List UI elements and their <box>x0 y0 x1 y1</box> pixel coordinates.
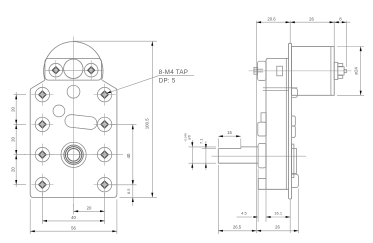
motor terminal bottom <box>338 75 343 78</box>
svg-text:20.6: 20.6 <box>267 16 276 21</box>
small circle below bearing <box>67 85 80 98</box>
bottom dimension 26.5 <box>218 165 256 234</box>
mounting hole row3 left <box>31 144 53 166</box>
svg-text:20: 20 <box>11 107 16 112</box>
right dimension phi24 <box>337 47 364 96</box>
svg-text:26: 26 <box>309 16 314 21</box>
gearbox top band <box>45 58 102 80</box>
svg-text:8.5: 8.5 <box>126 189 131 194</box>
output shaft side <box>218 147 258 163</box>
output shaft concentric circles <box>61 142 86 167</box>
M4 tap hole top-right <box>84 60 98 80</box>
svg-text:16.1: 16.1 <box>274 211 283 216</box>
motor shaft tip <box>344 69 346 72</box>
housing mid step small <box>261 113 266 122</box>
mounting hole row2 left <box>31 113 53 135</box>
bottom dimension 26 <box>257 189 299 234</box>
bottom dimension 16.1 <box>266 190 290 233</box>
side view shaft centerline <box>212 155 307 157</box>
bottom dimension 4.5 <box>237 169 259 223</box>
shaft boss back plate <box>292 144 297 178</box>
screw boss on plate <box>277 66 283 76</box>
svg-text:ø6: ø6 <box>186 134 191 139</box>
M4 tap hole top-left <box>49 60 63 80</box>
bottom dimension 20 <box>73 193 104 224</box>
motor rear bearing <box>338 67 344 75</box>
housing mid boss <box>258 122 266 136</box>
housing top ear <box>258 61 266 80</box>
motor terminal top <box>338 64 343 67</box>
svg-text:8: 8 <box>339 16 342 21</box>
front view top holes centerline <box>46 69 103 71</box>
mounting hole row1 right <box>94 84 116 106</box>
svg-text:100.5: 100.5 <box>145 118 150 130</box>
mounting hole row4 left <box>31 174 53 196</box>
svg-text:DP: 5: DP: 5 <box>159 78 176 85</box>
plate mid tab 2 <box>292 126 296 137</box>
svg-text:8-M4 TAP: 8-M4 TAP <box>159 69 188 76</box>
plate bottom tab <box>292 174 299 188</box>
svg-text:20: 20 <box>87 205 92 210</box>
right dimension 8.5 <box>126 177 134 206</box>
mounting hole row4 right <box>94 174 116 196</box>
housing back line <box>285 58 287 189</box>
mounting hole row2 right <box>94 113 116 135</box>
svg-text:4.5: 4.5 <box>241 211 247 216</box>
svg-text:40: 40 <box>126 153 131 158</box>
leader 8-M4 TAP DP: 5 <box>106 69 194 94</box>
ear screw <box>254 67 263 74</box>
bottom dimension 40 <box>42 193 104 224</box>
plate mid tab 1 <box>292 116 296 126</box>
right dimension 100.5 <box>74 41 158 197</box>
front view vertical centerline <box>72 37 74 207</box>
top dimension 20.6 / 26 / 8 <box>257 16 351 233</box>
motor rear bracket <box>334 62 338 79</box>
svg-text:56: 56 <box>71 225 76 230</box>
dimension phi6 shaft <box>183 133 216 170</box>
left chain dimension 20/20/20 <box>11 92 26 187</box>
gearbox dome arc <box>44 42 103 80</box>
mounting hole row1 left <box>31 84 53 106</box>
dimension 7.1 shaft flat height <box>198 139 216 170</box>
shaft boss front <box>258 143 266 168</box>
plate outline <box>30 80 117 197</box>
svg-text:20: 20 <box>11 137 16 142</box>
bottom dimension 56 <box>30 200 117 235</box>
right dimension 40 <box>110 125 137 185</box>
front view horizontal centerline (shaft row) <box>24 154 123 156</box>
mounting hole row3 right <box>94 144 116 166</box>
svg-text:26.5: 26.5 <box>233 225 242 230</box>
motor body <box>292 47 335 96</box>
svg-text:7.1: 7.1 <box>198 139 203 144</box>
gearbox housing side profile <box>258 58 297 189</box>
svg-text:26: 26 <box>275 225 280 230</box>
svg-text:ø24: ø24 <box>353 67 358 75</box>
side view motor centerline <box>249 70 352 72</box>
plate top tab <box>292 88 298 98</box>
small circle left <box>53 105 65 117</box>
obround slot <box>64 114 97 130</box>
svg-text:40: 40 <box>71 215 76 220</box>
svg-text:20: 20 <box>11 167 16 172</box>
svg-text:15: 15 <box>227 130 232 135</box>
center bearing circle <box>64 59 83 78</box>
side cover plate <box>289 43 292 199</box>
dimension 15 shaft flat <box>218 130 241 148</box>
